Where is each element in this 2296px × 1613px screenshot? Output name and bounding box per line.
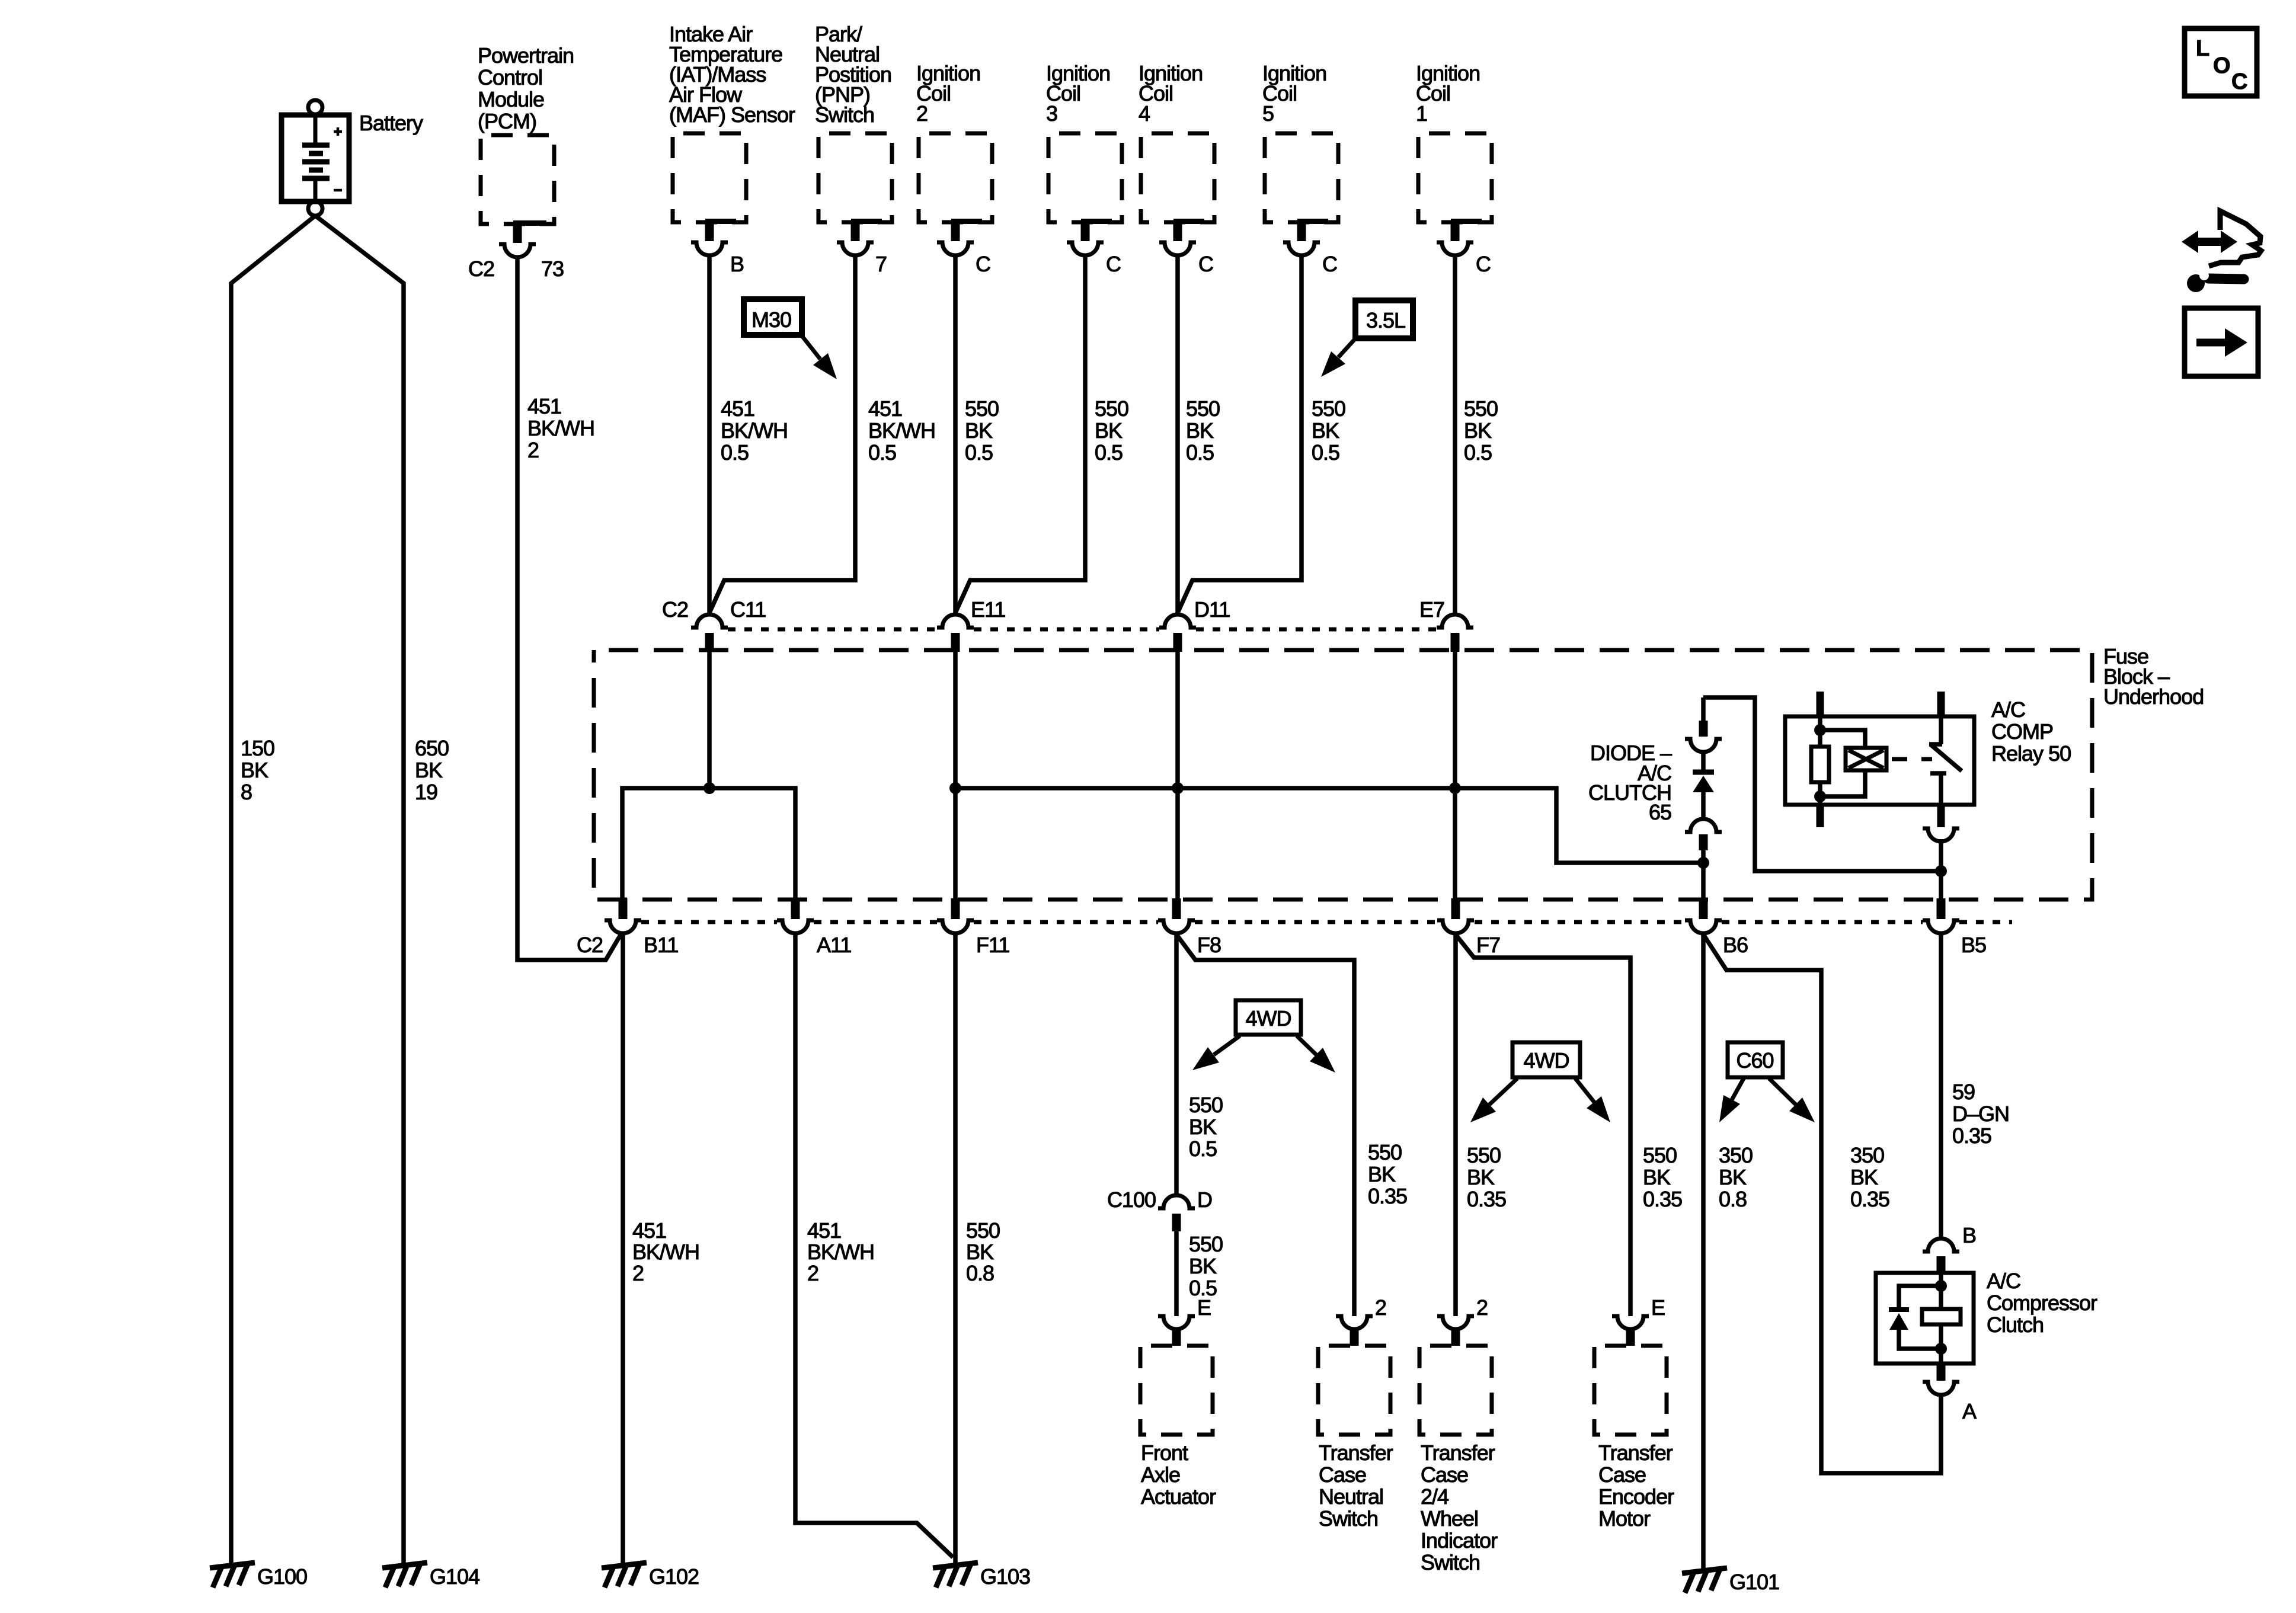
svg-text:2: 2	[807, 1261, 818, 1285]
PNP connector cup	[837, 242, 874, 255]
svg-text:F11: F11	[976, 933, 1009, 957]
front axle actuator connector E	[1158, 1316, 1195, 1329]
svg-text:Case: Case	[1319, 1462, 1366, 1487]
MAF pin B	[705, 219, 736, 224]
wire C11 into block	[707, 652, 712, 788]
svg-text:B6: B6	[1723, 933, 1748, 957]
svg-text:BK/WH: BK/WH	[721, 418, 788, 443]
ignition coil 3 box	[1048, 133, 1122, 222]
wire D11 into block to F8	[1175, 652, 1180, 901]
svg-text:A/C: A/C	[1987, 1269, 2020, 1293]
node B5	[1937, 898, 1946, 919]
svg-text:19: 19	[415, 780, 437, 804]
svg-text:550: 550	[1189, 1093, 1223, 1117]
svg-text:G100: G100	[257, 1564, 307, 1589]
fuse block underhood box	[594, 650, 2092, 900]
svg-text:Relay 50: Relay 50	[1991, 741, 2071, 766]
junction diode bottom	[1697, 857, 1709, 869]
svg-text:550: 550	[1464, 396, 1498, 421]
svg-text:Clutch: Clutch	[1987, 1313, 2044, 1337]
transfer case 2/4 wheel indicator switch box	[1419, 1346, 1492, 1435]
svg-text:0.5: 0.5	[965, 440, 993, 465]
svg-text:Battery: Battery	[359, 111, 423, 135]
wire F8 left branch	[1174, 933, 1179, 1195]
wire E7 into block to F7	[1453, 652, 1457, 901]
svg-text:0.5: 0.5	[1189, 1137, 1217, 1161]
A/C compressor clutch box	[1876, 1273, 1974, 1364]
wire B6 jog to clutch return	[1703, 934, 1941, 1473]
4WD callout 1	[1236, 1000, 1301, 1035]
svg-text:2: 2	[632, 1261, 644, 1285]
svg-text:2: 2	[1476, 1295, 1488, 1320]
svg-text:0.5: 0.5	[1464, 440, 1492, 465]
diode bottom pin	[1699, 834, 1708, 850]
wire relay to B5	[1939, 839, 1943, 901]
C60 arrows	[1732, 1078, 1744, 1100]
relay switch	[1937, 692, 1945, 716]
wire F7 left branch	[1453, 933, 1458, 1316]
svg-text:Case: Case	[1598, 1462, 1646, 1487]
coil4 pin C	[1173, 219, 1204, 224]
svg-text:(MAF) Sensor: (MAF) Sensor	[669, 103, 795, 127]
row1 dotted connector line	[728, 628, 937, 632]
junction E11 bus	[949, 782, 961, 794]
svg-text:BK/WH: BK/WH	[527, 416, 594, 440]
svg-text:0.5: 0.5	[1312, 440, 1339, 465]
ignition coil 1 box	[1418, 133, 1492, 222]
wire B6 to G101	[1701, 933, 1706, 1569]
M30 arrow	[800, 334, 820, 359]
wire clutch A return	[1939, 1395, 1943, 1473]
4WD arrows 1	[1214, 1036, 1240, 1055]
svg-text:Transfer: Transfer	[1319, 1441, 1393, 1465]
svg-text:M30: M30	[752, 308, 791, 332]
svg-text:Underhood: Underhood	[2103, 684, 2204, 709]
svg-text:4WD: 4WD	[1246, 1006, 1291, 1030]
wire coil1 C to E7	[1453, 257, 1457, 614]
wire diode top to relay feed	[1703, 697, 1941, 871]
svg-text:Indicator: Indicator	[1421, 1528, 1498, 1553]
svg-text:550: 550	[1186, 396, 1220, 421]
svg-text:BK/WH: BK/WH	[807, 1240, 874, 1264]
svg-text:0.5: 0.5	[721, 440, 749, 465]
diode top pin	[1699, 721, 1708, 737]
MAF connector cup	[691, 242, 728, 255]
4WD arrows 2	[1489, 1078, 1517, 1105]
svg-text:G101: G101	[1729, 1570, 1779, 1594]
transfer case neutral switch connector 2	[1336, 1316, 1373, 1329]
svg-text:0.35: 0.35	[1467, 1187, 1506, 1211]
wire battery negative to G104	[315, 216, 404, 1563]
coil1 connector cup	[1437, 242, 1473, 255]
A/C COMP relay 50 box	[1785, 716, 1974, 805]
relay pin 85 stub bottom	[1817, 805, 1824, 827]
svg-text:C2: C2	[662, 597, 688, 622]
PNP box	[818, 133, 892, 222]
svg-text:650: 650	[415, 736, 449, 760]
M30 callout box	[744, 299, 802, 335]
svg-text:451: 451	[721, 396, 754, 421]
wire coil5 C to D11	[1178, 257, 1302, 613]
wire diode to B6	[1701, 850, 1706, 901]
4WD callout 2	[1512, 1042, 1580, 1077]
svg-text:0.5: 0.5	[1186, 440, 1214, 465]
junction C11 bus	[703, 782, 715, 794]
svg-text:B11: B11	[644, 933, 678, 957]
svg-text:2: 2	[916, 101, 928, 126]
svg-text:2/4: 2/4	[1421, 1484, 1448, 1509]
ground G100	[210, 1563, 255, 1588]
svg-text:Wheel: Wheel	[1421, 1506, 1478, 1531]
svg-text:0.35: 0.35	[1952, 1124, 1991, 1148]
svg-text:C: C	[1198, 252, 1213, 276]
svg-text:E: E	[1651, 1295, 1665, 1320]
svg-text:BK: BK	[965, 418, 993, 443]
wire E11 into block to F11	[953, 652, 958, 901]
svg-text:F7: F7	[1476, 933, 1500, 957]
svg-text:D–GN: D–GN	[1952, 1102, 2009, 1126]
ignition coil 4 box	[1141, 133, 1214, 222]
svg-text:C2: C2	[577, 933, 603, 957]
svg-text:BK: BK	[1850, 1165, 1878, 1189]
svg-text:550: 550	[1643, 1143, 1677, 1167]
svg-text:4: 4	[1139, 101, 1150, 126]
svg-text:E: E	[1197, 1295, 1211, 1320]
svg-text:BK/WH: BK/WH	[632, 1240, 699, 1264]
coil4 connector cup	[1159, 242, 1196, 255]
svg-text:G103: G103	[980, 1564, 1030, 1589]
svg-text:BK: BK	[1186, 418, 1214, 443]
svg-text:A11: A11	[817, 933, 851, 957]
svg-text:C: C	[1106, 252, 1121, 276]
svg-text:Axle: Axle	[1141, 1462, 1180, 1487]
svg-text:Actuator: Actuator	[1141, 1484, 1216, 1509]
transfer case neutral switch box	[1318, 1346, 1390, 1435]
svg-text:G104: G104	[430, 1564, 479, 1589]
node E11	[937, 615, 974, 628]
svg-text:73: 73	[541, 257, 564, 281]
wire coil3 C to E11	[955, 257, 1085, 613]
svg-text:Module: Module	[478, 87, 544, 111]
wire PCM 73 to fuse block B11	[517, 258, 621, 960]
svg-text:0.5: 0.5	[1095, 440, 1123, 465]
ground G101	[1682, 1568, 1727, 1593]
svg-text:0.35: 0.35	[1643, 1187, 1682, 1211]
transfer case 2/4 switch connector 2	[1437, 1316, 1474, 1329]
relay output cup	[1923, 828, 1959, 841]
coil1 pin C	[1451, 219, 1482, 224]
wire block bus E11-E7	[955, 786, 1455, 791]
svg-text:BK: BK	[1368, 1162, 1396, 1186]
wire F7 jog to right branch	[1456, 934, 1630, 1316]
svg-text:3.5L: 3.5L	[1366, 308, 1405, 332]
svg-text:C60: C60	[1736, 1048, 1773, 1073]
svg-text:550: 550	[965, 396, 999, 421]
svg-text:BK: BK	[1467, 1165, 1495, 1189]
svg-text:BK: BK	[241, 758, 268, 782]
PCM box	[481, 135, 554, 224]
svg-text:550: 550	[1095, 396, 1128, 421]
svg-text:BK: BK	[1719, 1165, 1747, 1189]
wire block bus C11-B11-A11	[622, 788, 795, 901]
diode top cup	[1685, 739, 1722, 752]
svg-text:2: 2	[1375, 1295, 1386, 1320]
svg-text:F8: F8	[1197, 933, 1221, 957]
svg-text:E7: E7	[1419, 597, 1444, 622]
junction D11 bus	[1172, 782, 1184, 794]
svg-text:59: 59	[1952, 1080, 1975, 1104]
svg-text:7: 7	[875, 252, 887, 276]
svg-text:COMP: COMP	[1991, 719, 2053, 744]
ignition coil 5 box	[1265, 133, 1338, 222]
svg-text:5: 5	[1262, 101, 1274, 126]
wire battery negative to G100	[231, 216, 315, 1563]
svg-text:B: B	[730, 252, 744, 276]
service icon	[2193, 238, 2226, 246]
connector C100	[1158, 1195, 1195, 1208]
svg-text:8: 8	[241, 780, 252, 804]
svg-text:550: 550	[1312, 396, 1345, 421]
node D11	[1159, 615, 1196, 628]
svg-text:0.35: 0.35	[1368, 1184, 1407, 1208]
svg-text:451: 451	[527, 394, 561, 418]
wire coil4 C to D11	[1175, 257, 1180, 614]
node F11	[951, 898, 960, 919]
row2 dotted connector line	[641, 920, 777, 924]
wire coil2 C to E11	[953, 257, 958, 614]
diode D1	[1701, 753, 1706, 772]
svg-text:550: 550	[1467, 1143, 1501, 1167]
clutch coil	[1939, 1273, 1943, 1309]
PCM pin C2-73	[513, 220, 546, 226]
svg-text:3: 3	[1046, 101, 1057, 126]
wire F11 to G103	[953, 933, 958, 1563]
svg-text:0.8: 0.8	[1719, 1187, 1747, 1211]
svg-text:C100: C100	[1107, 1188, 1156, 1212]
svg-text:E11: E11	[971, 597, 1005, 622]
LOC reference box	[2185, 28, 2257, 96]
svg-text:550: 550	[1368, 1140, 1402, 1164]
wire B5 to compressor clutch	[1939, 933, 1943, 1240]
svg-text:BK: BK	[1312, 418, 1339, 443]
ground G104	[382, 1563, 427, 1588]
svg-text:Switch: Switch	[1319, 1506, 1378, 1531]
coil3 pin C	[1081, 219, 1112, 224]
svg-text:550: 550	[1189, 1232, 1223, 1256]
svg-text:2: 2	[527, 438, 539, 462]
node A11	[791, 898, 800, 919]
svg-text:BK/WH: BK/WH	[868, 418, 935, 443]
svg-text:BK: BK	[1643, 1165, 1671, 1189]
svg-text:0.5: 0.5	[868, 440, 896, 465]
coil3 connector cup	[1067, 242, 1104, 255]
svg-text:B: B	[1962, 1223, 1976, 1247]
clutch diode	[1899, 1286, 1941, 1309]
svg-text:150: 150	[241, 736, 274, 760]
svg-text:1: 1	[1416, 101, 1427, 126]
junction relay switch out	[1935, 865, 1947, 877]
node B11	[619, 898, 628, 919]
PCM connector cup	[499, 244, 536, 257]
svg-text:BK: BK	[415, 758, 443, 782]
svg-text:Switch: Switch	[1421, 1550, 1480, 1574]
svg-text:C: C	[976, 252, 990, 276]
svg-text:O: O	[2213, 53, 2230, 78]
svg-text:C11: C11	[730, 597, 766, 622]
junction E7 bus	[1449, 782, 1461, 794]
svg-text:C: C	[1322, 252, 1337, 276]
relay coil to switch linkage	[1892, 757, 1932, 761]
svg-text:0.8: 0.8	[966, 1261, 994, 1285]
wire PNP 7 to C11	[709, 257, 855, 613]
svg-text:65: 65	[1649, 800, 1671, 824]
svg-text:Powertrain: Powertrain	[478, 43, 574, 68]
svg-text:350: 350	[1850, 1143, 1884, 1167]
svg-text:(PCM): (PCM)	[478, 109, 536, 133]
node E7	[1437, 615, 1473, 628]
svg-text:550: 550	[966, 1218, 1000, 1243]
ignition coil 2 box	[919, 133, 992, 222]
3.5L arrow	[1338, 337, 1357, 357]
clutch B connector	[1923, 1238, 1959, 1252]
svg-text:350: 350	[1719, 1143, 1753, 1167]
svg-text:Transfer: Transfer	[1598, 1441, 1673, 1465]
svg-text:C: C	[1476, 252, 1491, 276]
wire bus E7 to diode	[1455, 788, 1703, 863]
battery	[282, 115, 349, 201]
diode bottom dome	[1685, 819, 1722, 832]
front axle actuator box	[1140, 1346, 1213, 1435]
svg-text:Control: Control	[478, 65, 542, 89]
svg-text:Transfer: Transfer	[1421, 1441, 1495, 1465]
wire MAF B to C11	[707, 257, 712, 614]
svg-text:BK: BK	[1189, 1254, 1217, 1278]
svg-text:Encoder: Encoder	[1598, 1484, 1674, 1509]
3.5L callout box	[1355, 300, 1413, 338]
MAF box	[673, 133, 746, 222]
svg-text:Front: Front	[1141, 1441, 1188, 1465]
wire B11 to G102	[621, 933, 625, 1563]
svg-text:C2: C2	[468, 257, 494, 281]
svg-text:A/C: A/C	[1991, 697, 2025, 722]
coil5 connector cup	[1283, 242, 1320, 255]
svg-text:Neutral: Neutral	[1319, 1484, 1383, 1509]
relay pin 87 stub	[1937, 805, 1945, 827]
svg-text:C: C	[2231, 69, 2247, 94]
next-page arrow box	[2185, 308, 2258, 376]
coil5 pin C	[1297, 219, 1328, 224]
svg-text:BK: BK	[1189, 1115, 1217, 1139]
svg-text:A: A	[1962, 1399, 1977, 1423]
C60 callout	[1728, 1042, 1783, 1077]
svg-text:451: 451	[632, 1218, 666, 1243]
ground G103	[933, 1563, 978, 1588]
clutch A connector	[1937, 1364, 1946, 1381]
svg-text:B5: B5	[1961, 933, 1986, 957]
svg-text:4WD: 4WD	[1524, 1048, 1569, 1073]
coil2 pin C	[951, 219, 982, 224]
node F8	[1172, 898, 1181, 919]
transfer case encoder motor connector E	[1612, 1316, 1649, 1329]
svg-text:Compressor: Compressor	[1987, 1291, 2097, 1315]
PNP pin 7	[851, 219, 882, 224]
svg-text:BK: BK	[966, 1240, 994, 1264]
svg-text:BK: BK	[1095, 418, 1123, 443]
wire C100 to front axle actuator	[1174, 1231, 1179, 1316]
svg-text:Case: Case	[1421, 1462, 1468, 1487]
svg-text:451: 451	[807, 1218, 841, 1243]
node F7	[1451, 898, 1460, 919]
svg-text:L: L	[2196, 36, 2209, 61]
svg-text:Motor: Motor	[1598, 1506, 1651, 1531]
svg-text:Switch: Switch	[815, 103, 874, 127]
svg-text:D: D	[1197, 1188, 1212, 1212]
wire to diode pin	[1701, 697, 1706, 721]
node B6	[1699, 898, 1708, 919]
wire A11 to G103	[795, 933, 953, 1557]
node C11	[691, 615, 728, 628]
svg-text:BK: BK	[1464, 418, 1492, 443]
ground G102	[602, 1563, 647, 1588]
transfer case encoder motor box	[1594, 1346, 1667, 1435]
svg-text:451: 451	[868, 396, 902, 421]
coil2 connector cup	[937, 242, 974, 255]
relay coil branch	[1818, 716, 1822, 747]
wire F8 jog to right branch	[1176, 934, 1354, 1316]
svg-text:D11: D11	[1194, 597, 1230, 622]
relay pin 86 stub top	[1817, 692, 1824, 716]
svg-text:G102: G102	[649, 1564, 699, 1589]
svg-text:0.35: 0.35	[1850, 1187, 1889, 1211]
